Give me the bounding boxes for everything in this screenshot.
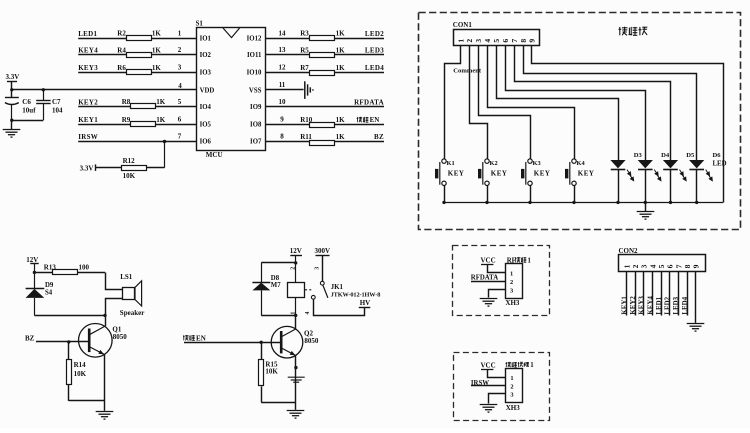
svg-text:CON1: CON1 xyxy=(453,21,473,29)
svg-text:EN: EN xyxy=(370,116,380,124)
svg-text:1K: 1K xyxy=(152,46,162,54)
svg-text:10K: 10K xyxy=(265,368,278,376)
wire CON1 pin6 to D4 xyxy=(506,46,646,161)
svg-text:R4: R4 xyxy=(117,46,126,54)
svg-text:4: 4 xyxy=(178,82,182,90)
resistor R11 xyxy=(310,141,335,146)
ground (RF module) xyxy=(480,299,498,307)
svg-text:LED1: LED1 xyxy=(78,30,97,38)
svg-text:R3: R3 xyxy=(300,30,309,38)
LED D3 emission arrows xyxy=(627,170,634,181)
wire R10 to net XIAOCI xyxy=(335,124,384,126)
node emitter junction xyxy=(294,366,297,369)
wire VCC to XH3 pin1 xyxy=(488,265,506,273)
wire R15 bottom xyxy=(261,386,263,402)
svg-text:BZ: BZ xyxy=(374,133,384,141)
svg-text:IO7: IO7 xyxy=(250,139,262,146)
LED D3 xyxy=(610,160,625,168)
svg-text:IO6: IO6 xyxy=(200,139,212,146)
svg-text:2: 2 xyxy=(465,39,474,43)
wire R6 to MCU pin 3 xyxy=(151,72,196,74)
node cap-gnd junction xyxy=(10,119,13,122)
svg-text:R7: R7 xyxy=(300,64,309,72)
wire R3 to net LED2 xyxy=(335,38,384,40)
wire Q1 emitter down xyxy=(104,355,106,401)
svg-text:9: 9 xyxy=(692,264,701,268)
node coil bottom junction xyxy=(294,314,297,317)
svg-text:K2: K2 xyxy=(490,160,498,167)
svg-text:3.3V: 3.3V xyxy=(80,164,94,172)
svg-text:R12: R12 xyxy=(123,157,136,165)
LED D4 xyxy=(638,160,653,168)
wire CON1 pin9 common return xyxy=(532,46,724,203)
wire BZ to Q1 base xyxy=(36,341,89,343)
transistor Q1 xyxy=(79,324,113,358)
wire MCU pin 9 to R10 xyxy=(265,124,310,126)
svg-text:1K: 1K xyxy=(336,133,346,141)
svg-text:IO9: IO9 xyxy=(250,104,262,111)
node rail junction xyxy=(669,201,672,204)
transistor Q2 xyxy=(271,326,303,358)
relay JK1 coil xyxy=(295,263,297,282)
ground (IR module) xyxy=(480,405,498,413)
RF module dashed enclosure xyxy=(453,246,550,316)
svg-text:C6: C6 xyxy=(22,98,31,106)
wire D3 to rail xyxy=(618,169,620,202)
svg-text:2: 2 xyxy=(178,46,182,54)
op-amp/IC MCU S1 box xyxy=(197,28,266,151)
wire KEY4 to R4 xyxy=(78,54,126,56)
wire D6 to rail xyxy=(696,169,698,202)
svg-text:3: 3 xyxy=(178,64,182,72)
wire R7 to net LED4 xyxy=(335,72,384,74)
svg-text:LED3: LED3 xyxy=(673,296,680,314)
wire CON2 pin3 (KEY3) xyxy=(643,272,645,316)
svg-text:S1: S1 xyxy=(196,20,204,28)
node rail junction xyxy=(528,201,531,204)
wire RFDATA to pin2 xyxy=(471,281,505,283)
svg-text:1K: 1K xyxy=(336,64,346,72)
relay JK1 contact xyxy=(320,281,324,285)
svg-text:KEY4: KEY4 xyxy=(78,47,98,55)
svg-text:13: 13 xyxy=(279,46,287,54)
svg-text:D8: D8 xyxy=(271,275,280,282)
node rail junction xyxy=(572,201,575,204)
svg-text:8: 8 xyxy=(280,133,284,141)
svg-text:LED1: LED1 xyxy=(656,296,663,314)
switch K3 xyxy=(526,159,532,186)
svg-text:LED2: LED2 xyxy=(665,296,672,314)
svg-text:11: 11 xyxy=(279,81,286,89)
wire K4 to rail xyxy=(574,186,576,203)
wire CON1 pin3 to K3 xyxy=(479,46,531,159)
svg-text:R14: R14 xyxy=(74,361,87,369)
svg-text:3: 3 xyxy=(510,392,513,399)
svg-text:EN: EN xyxy=(196,334,206,342)
svg-text:LED3: LED3 xyxy=(365,47,384,55)
svg-text:IO3: IO3 xyxy=(200,70,212,77)
wire D8 bottom to coil bottom xyxy=(261,315,296,317)
svg-text:1K: 1K xyxy=(336,116,346,124)
svg-text:IO5: IO5 xyxy=(200,122,212,129)
svg-text:KEY4: KEY4 xyxy=(647,296,654,315)
svg-text:1K: 1K xyxy=(152,64,162,72)
svg-text:10K: 10K xyxy=(123,172,136,180)
wire 12V to R13 xyxy=(34,272,52,274)
svg-text:LED2: LED2 xyxy=(365,30,384,38)
svg-text:XH3: XH3 xyxy=(506,404,521,412)
svg-text:XH3: XH3 xyxy=(505,299,520,307)
resistor R3 xyxy=(310,36,335,41)
capacitor C6 xyxy=(5,97,19,99)
svg-text:1K: 1K xyxy=(336,46,346,54)
wire CON2 pin1 (KEY1) xyxy=(626,272,628,316)
wire to ground xyxy=(11,120,13,129)
capacitor C7 xyxy=(43,90,45,100)
wire Q2 emitter down xyxy=(295,356,297,403)
svg-text:D9: D9 xyxy=(45,282,54,289)
svg-text:10uf: 10uf xyxy=(22,107,36,115)
wire R9 to MCU pin 6 xyxy=(156,124,196,126)
LED D5 xyxy=(663,160,678,168)
node rail junction xyxy=(695,201,698,204)
svg-text:9: 9 xyxy=(280,116,284,124)
svg-text:3: 3 xyxy=(474,39,483,43)
connector CON2 xyxy=(619,255,706,272)
wire CON2 pin8 (LED4) xyxy=(687,272,689,316)
wire coil to Q2 collector xyxy=(295,315,297,329)
wire R14 to emitter node xyxy=(69,400,105,402)
resistor R15 xyxy=(259,360,264,386)
wire MCU pin 13 to R5 xyxy=(265,54,310,56)
wire speaker - down xyxy=(106,299,123,316)
svg-text:IO10: IO10 xyxy=(247,70,262,77)
svg-text:IRSW: IRSW xyxy=(78,133,98,141)
wire node to Q1 collector xyxy=(105,315,107,326)
resistor R6 xyxy=(127,70,152,75)
wire VCC to XH3 pin1 xyxy=(488,370,506,378)
svg-text:14: 14 xyxy=(279,29,287,37)
svg-text:1: 1 xyxy=(528,257,532,264)
svg-text:KEY2: KEY2 xyxy=(78,98,98,106)
LED D5 emission arrows xyxy=(680,170,687,181)
LED D6 emission arrows xyxy=(706,170,713,181)
ground (keyboard) xyxy=(637,212,655,220)
wire R14 bottom xyxy=(68,384,70,401)
svg-text:1: 1 xyxy=(290,312,296,315)
svg-text:Speaker: Speaker xyxy=(120,309,145,317)
diode D8 xyxy=(261,263,263,282)
svg-text:2: 2 xyxy=(290,267,296,270)
svg-text:RFDATA: RFDATA xyxy=(471,274,498,281)
svg-text:5: 5 xyxy=(492,39,501,43)
node R15 junction xyxy=(260,341,263,344)
wire R2 to MCU pin 1 xyxy=(151,38,196,40)
wire pin3 to ground xyxy=(489,290,506,298)
node collector junction xyxy=(103,314,106,317)
wire R5 to net LED3 xyxy=(335,54,384,56)
svg-text:10: 10 xyxy=(279,98,287,106)
resistor R10 xyxy=(310,123,335,128)
wire D5 to rail xyxy=(670,169,672,202)
svg-text:R13: R13 xyxy=(44,263,57,271)
svg-text:100: 100 xyxy=(79,263,90,271)
svg-text:K1: K1 xyxy=(447,160,455,167)
svg-text:1: 1 xyxy=(510,271,513,278)
svg-text:IO2: IO2 xyxy=(200,52,212,59)
svg-text:LED4: LED4 xyxy=(365,64,384,72)
svg-text:R9: R9 xyxy=(122,116,131,124)
node rail junction xyxy=(485,201,488,204)
wire contact to HV xyxy=(314,300,365,316)
LED D4 emission arrows xyxy=(654,170,661,181)
LED D6 xyxy=(689,160,704,168)
MCU notch xyxy=(223,28,240,38)
wire D4 to rail xyxy=(645,169,647,202)
connector XH3 (RF) xyxy=(506,264,523,299)
wire R4 to MCU pin 2 xyxy=(151,54,196,56)
svg-text:LS1: LS1 xyxy=(120,273,133,281)
svg-text:1: 1 xyxy=(178,29,182,37)
speaker LS1 xyxy=(123,288,135,300)
connector XH3 (IR) xyxy=(506,369,523,403)
svg-text:1K: 1K xyxy=(336,30,346,38)
wire MCU pin 8 to R11 xyxy=(265,141,310,143)
wire K1 to rail xyxy=(444,186,446,203)
svg-text:8: 8 xyxy=(519,39,528,43)
switch K1 xyxy=(440,159,446,186)
wire rail to ground xyxy=(645,202,647,211)
wire K3 to rail xyxy=(530,186,532,203)
wire CON2 pin9 to ground xyxy=(695,272,697,323)
node R14 junction xyxy=(67,340,70,343)
svg-text:KEY1: KEY1 xyxy=(621,296,628,315)
wire KEY2 to R8 xyxy=(78,106,131,108)
svg-text:12: 12 xyxy=(279,64,287,72)
svg-text:JTKW-012-1HW-8: JTKW-012-1HW-8 xyxy=(331,291,381,298)
svg-text:1K: 1K xyxy=(156,98,166,106)
wire R15 to emitter node xyxy=(261,402,296,404)
svg-text:VDD: VDD xyxy=(200,87,215,94)
wire 3.3V to R12 xyxy=(95,167,122,169)
svg-text:R8: R8 xyxy=(122,98,131,106)
svg-text:3.3V: 3.3V xyxy=(6,73,20,81)
svg-text:8050: 8050 xyxy=(113,333,128,341)
svg-text:3: 3 xyxy=(639,264,648,268)
svg-text:R5: R5 xyxy=(300,46,309,54)
svg-text:KEY: KEY xyxy=(448,170,465,178)
wire VSS to ground xyxy=(265,89,304,91)
wire MCU pin 12 to R7 xyxy=(265,72,310,74)
ground (caps) xyxy=(3,130,21,138)
svg-text:IO1: IO1 xyxy=(200,36,212,43)
resistor R9 xyxy=(131,122,156,127)
resistor R2 xyxy=(127,36,152,41)
svg-text:MCU: MCU xyxy=(206,151,223,159)
svg-text:9: 9 xyxy=(528,39,537,43)
svg-text:2: 2 xyxy=(510,384,513,391)
wire CON2 pin5 (LED1) xyxy=(661,272,663,316)
svg-text:R10: R10 xyxy=(300,116,313,124)
svg-text:1: 1 xyxy=(530,362,534,369)
svg-text:12V: 12V xyxy=(290,247,302,255)
wire pin3 to ground xyxy=(489,394,506,404)
wire CON1 pin2 to K2 xyxy=(470,46,488,159)
svg-text:KEY: KEY xyxy=(491,170,508,178)
wire CON2 pin6 (LED2) xyxy=(669,272,671,316)
wire CON1 pin5 to D3 xyxy=(497,46,619,161)
wire CON1 pin7 to D5 xyxy=(515,46,671,161)
svg-text:7: 7 xyxy=(510,39,519,43)
power ground symbol (Q2 emitter) xyxy=(288,377,305,382)
resistor R4 xyxy=(127,53,152,58)
label 按键板 (board title) xyxy=(619,27,628,36)
wire IRSW to pin2 xyxy=(471,385,506,387)
wire CON2 pin4 (KEY4) xyxy=(652,272,654,316)
wire CON1 pin8 to D6 xyxy=(524,46,697,161)
wire VDD rail to MCU pin4 xyxy=(12,89,196,91)
node 3V3/VDD junction xyxy=(10,88,13,91)
svg-text:HV: HV xyxy=(360,299,371,307)
svg-text:M7: M7 xyxy=(271,282,281,289)
wire CON2 pin2 (KEY2) xyxy=(635,272,637,316)
svg-text:104: 104 xyxy=(52,107,63,115)
node 12V/D8/coil junction xyxy=(294,261,297,264)
resistor R13 xyxy=(53,270,78,275)
wire 3V3 down to C6 xyxy=(11,90,13,98)
svg-text:IO12: IO12 xyxy=(247,36,262,43)
svg-text:8050: 8050 xyxy=(304,337,319,345)
node 消磁EN (net label, Q2) xyxy=(183,335,189,340)
svg-text:3: 3 xyxy=(315,267,321,270)
label 遥控模块1 xyxy=(506,362,512,367)
node rail junction xyxy=(616,201,619,204)
node C7 top junction xyxy=(42,88,45,91)
diode D9 xyxy=(34,272,36,288)
resistor R8 xyxy=(131,104,156,109)
svg-text:RFDATA: RFDATA xyxy=(354,98,384,106)
switch K4 xyxy=(570,159,576,186)
svg-text:KEY3: KEY3 xyxy=(638,296,645,315)
resistor R14 xyxy=(67,360,72,385)
svg-text:6: 6 xyxy=(178,116,182,124)
svg-text:R2: R2 xyxy=(117,30,126,38)
wire common bottom rail xyxy=(444,202,723,204)
svg-text:VCC: VCC xyxy=(481,257,496,265)
svg-text:10K: 10K xyxy=(74,370,87,378)
svg-text:R11: R11 xyxy=(300,133,312,141)
svg-text:JK1: JK1 xyxy=(331,283,344,291)
wire R12 to IRSW net xyxy=(147,167,165,169)
svg-text:D5: D5 xyxy=(686,152,695,159)
svg-text:300V: 300V xyxy=(315,247,331,255)
wire K2 to rail xyxy=(487,186,489,203)
svg-text:S4: S4 xyxy=(45,289,53,296)
svg-text:D6: D6 xyxy=(713,152,722,159)
ground (VSS, rotated) xyxy=(305,81,313,99)
node 消磁EN (net label) xyxy=(357,117,363,122)
wire IRSW to MCU pin 7 xyxy=(78,141,196,143)
svg-text:BZ: BZ xyxy=(25,335,35,343)
svg-text:K4: K4 xyxy=(577,160,586,167)
wire R13 to speaker node xyxy=(78,272,105,274)
wire LED1 to R2 xyxy=(78,38,126,40)
svg-text:R6: R6 xyxy=(117,64,126,72)
wire CON1 pin1 to K1 xyxy=(445,46,461,159)
node IRSW/R12 junction xyxy=(163,140,166,143)
node rail junction xyxy=(442,201,445,204)
wire 300V to contact xyxy=(322,256,324,281)
svg-text:C7: C7 xyxy=(52,98,61,106)
svg-text:2: 2 xyxy=(510,279,513,286)
svg-text:LED4: LED4 xyxy=(682,296,689,314)
wire 消磁EN to Q2 base xyxy=(184,342,281,344)
svg-text:IO8: IO8 xyxy=(250,122,262,129)
IR module dashed enclosure xyxy=(454,353,550,421)
svg-text:6: 6 xyxy=(501,39,510,43)
wire MCU pin 14 to R3 xyxy=(265,38,310,40)
svg-text:4: 4 xyxy=(483,39,492,43)
ground (Q1) xyxy=(96,412,114,420)
svg-text:3: 3 xyxy=(510,288,513,295)
svg-text:D4: D4 xyxy=(661,152,670,159)
svg-text:7: 7 xyxy=(178,133,182,141)
resistor R7 xyxy=(310,71,335,76)
wire to R14 xyxy=(68,342,70,360)
svg-text:12V: 12V xyxy=(26,256,38,264)
switch K2 xyxy=(483,159,489,186)
wire to D8 xyxy=(261,262,296,264)
svg-text:KEY: KEY xyxy=(578,170,595,178)
wire R11 to net BZ xyxy=(335,141,384,143)
resistor R5 xyxy=(310,53,335,58)
wire R8 to MCU pin 5 xyxy=(156,106,196,108)
svg-text:D3: D3 xyxy=(634,152,643,159)
svg-text:4: 4 xyxy=(305,312,311,315)
wire to ground xyxy=(104,401,106,411)
svg-text:CON2: CON2 xyxy=(619,247,639,255)
node rail junction xyxy=(644,201,647,204)
svg-text:KEY3: KEY3 xyxy=(78,64,98,72)
svg-text:1K: 1K xyxy=(152,30,162,38)
wire D9 bottom to collector node xyxy=(34,315,105,317)
keyboard board dashed enclosure xyxy=(419,13,741,230)
wire to speaker + xyxy=(106,273,123,290)
svg-text:KEY1: KEY1 xyxy=(78,116,98,124)
svg-text:IO11: IO11 xyxy=(247,52,262,59)
svg-text:K3: K3 xyxy=(533,160,541,167)
wire KEY1 to R9 xyxy=(78,124,131,126)
svg-text:1: 1 xyxy=(510,375,513,382)
ground (Q2) xyxy=(287,411,305,419)
svg-text:Comment: Comment xyxy=(453,68,482,75)
wire KEY3 to R6 xyxy=(78,72,126,74)
ground (CON2) xyxy=(687,324,705,332)
svg-text:IO4: IO4 xyxy=(200,104,212,111)
wire to R15 xyxy=(261,342,263,360)
node 12V/D9/R13 junction xyxy=(33,271,36,274)
wire cap bottoms xyxy=(12,120,44,122)
svg-text:1K: 1K xyxy=(156,116,166,124)
svg-text:5: 5 xyxy=(178,98,182,106)
svg-text:LED: LED xyxy=(713,161,727,168)
wire MCU pin 10 to net RFDATA xyxy=(265,106,384,108)
wire to ground xyxy=(295,402,297,410)
svg-text:KEY: KEY xyxy=(534,170,551,178)
svg-text:KEY2: KEY2 xyxy=(630,296,637,315)
svg-text:VCC: VCC xyxy=(481,362,496,370)
wire CON2 pin7 (LED3) xyxy=(678,272,680,316)
